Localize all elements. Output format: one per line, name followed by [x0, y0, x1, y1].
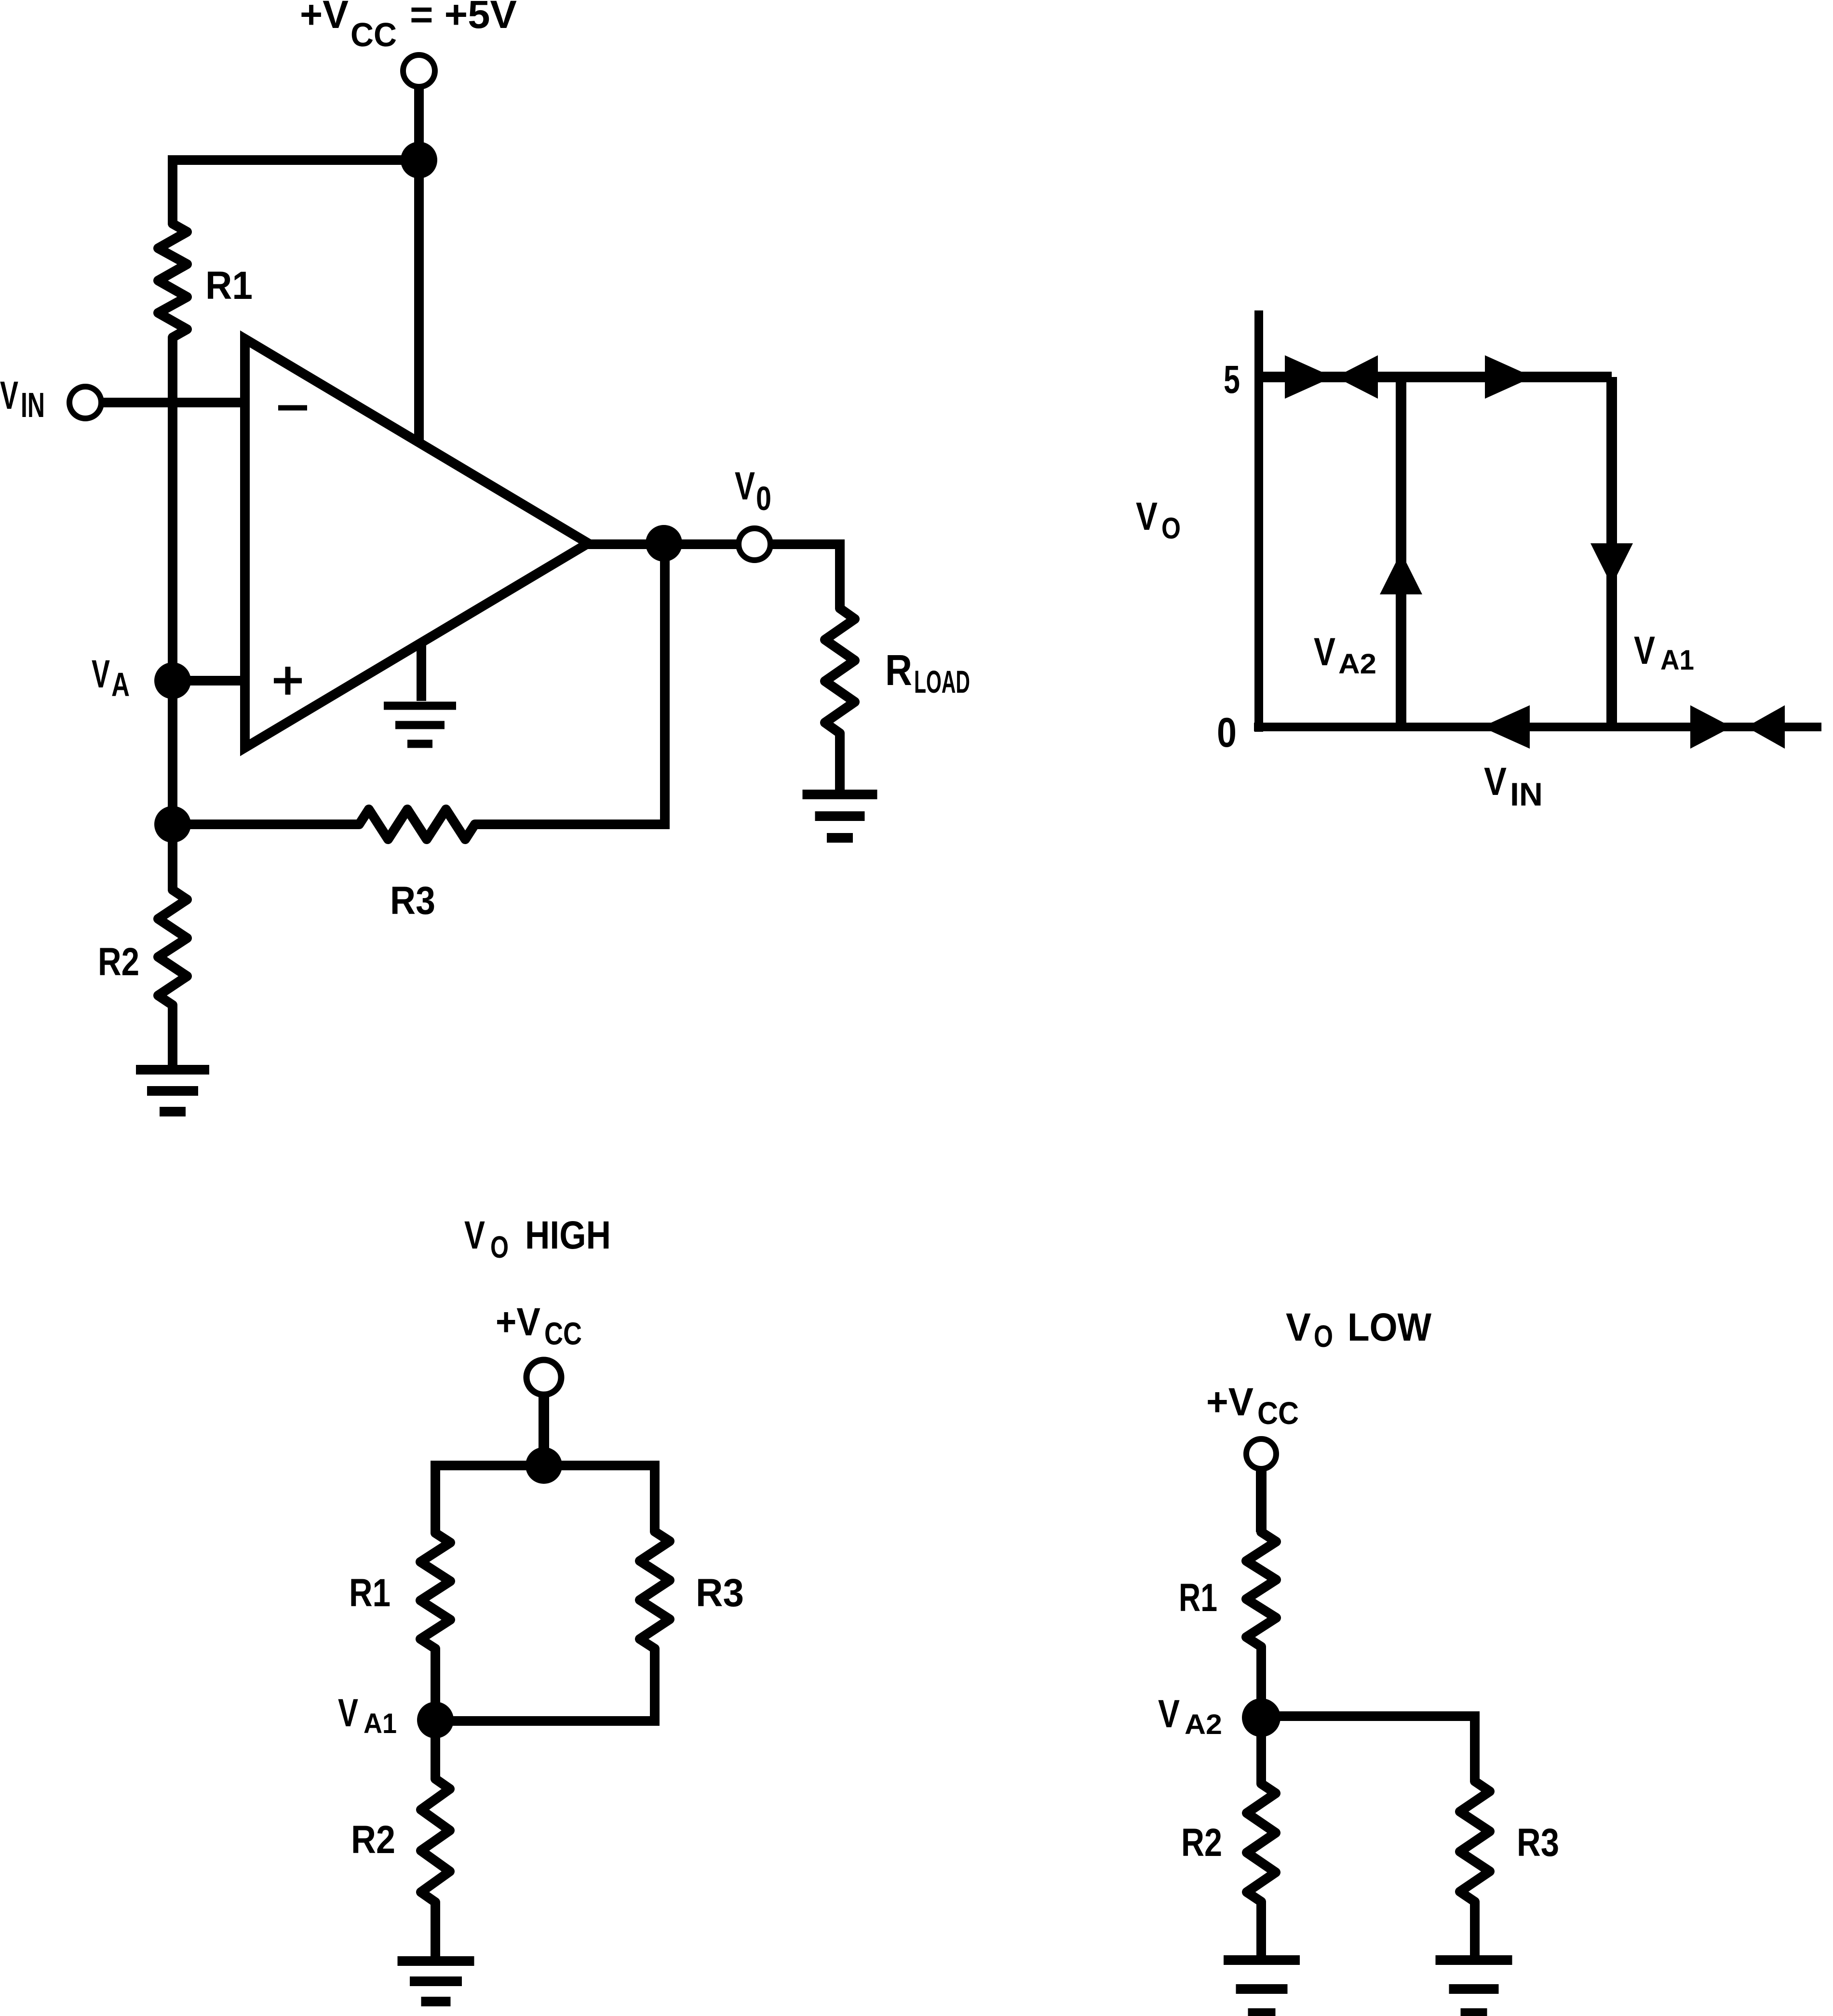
svg-text:A2: A2	[1185, 1709, 1222, 1740]
node VCC junction dot (high ckt)	[526, 1447, 562, 1484]
node feedback junction dot	[154, 806, 191, 843]
arrow right near x-axis end	[1690, 705, 1732, 749]
wire ground pin stem	[417, 641, 426, 701]
wire R1 to VA1 node	[431, 1649, 440, 1720]
svg-text:V: V	[338, 1691, 358, 1735]
svg-text:CC: CC	[544, 1316, 582, 1351]
svg-text:= +5V: = +5V	[410, 0, 517, 37]
svg-text:R2: R2	[1181, 1821, 1222, 1865]
svg-text:R3: R3	[1517, 1821, 1559, 1865]
arrow down on VA1 line	[1590, 543, 1633, 586]
resistor R1 (high ckt)	[420, 1533, 450, 1649]
ground under R2 (low ckt)	[1224, 1955, 1300, 1965]
svg-text:CC: CC	[1257, 1395, 1299, 1431]
ground (high ckt)	[398, 1956, 474, 1966]
wire VA to non-inverting input	[173, 676, 250, 685]
wire R3 to bottom rail	[650, 1649, 660, 1726]
svg-text:R: R	[885, 646, 912, 695]
resistor R3 (low ckt)	[1460, 1781, 1490, 1902]
arrow left at x-axis end	[1746, 705, 1785, 749]
op-amp U1 comparator triangle	[245, 339, 588, 748]
ground under RLOAD	[803, 790, 877, 799]
wire top rail (high ckt)	[435, 1461, 655, 1470]
graph top line VO=5	[1259, 372, 1612, 382]
resistor R3 (high ckt)	[640, 1532, 670, 1649]
svg-text:+V: +V	[1206, 1380, 1253, 1424]
svg-text:HIGH: HIGH	[525, 1213, 611, 1257]
wire VA down to feedback node	[168, 681, 177, 824]
svg-text:+V: +V	[300, 0, 349, 37]
wire VA2 to R2 (low ckt)	[1256, 1718, 1266, 1784]
wire VA1 to R2 (high ckt)	[431, 1720, 440, 1779]
power terminal +VCC (low ckt)	[1246, 1439, 1276, 1469]
wire R1 bottom to node VA	[168, 337, 177, 681]
graph x-axis VIN	[1254, 723, 1821, 731]
node VA2 dot (low ckt)	[1242, 1698, 1280, 1737]
svg-text:O: O	[1314, 1319, 1333, 1354]
resistor R1 (low ckt)	[1246, 1532, 1276, 1647]
svg-text:R1: R1	[1179, 1576, 1217, 1620]
resistor R3	[359, 809, 475, 839]
wire R3 to node	[173, 820, 359, 829]
wire node to R2	[168, 824, 177, 890]
ground under op-amp	[384, 702, 456, 710]
power terminal +VCC	[403, 55, 435, 87]
input terminal VIN	[69, 387, 101, 418]
svg-text:R3: R3	[390, 879, 435, 923]
svg-text:IN: IN	[21, 386, 45, 425]
resistor R2	[158, 890, 187, 1005]
svg-text:V: V	[1158, 1692, 1180, 1736]
wire R2 to ground	[168, 1005, 177, 1070]
pin plus (non-inverting input)	[274, 678, 302, 684]
svg-text:O: O	[490, 1230, 509, 1264]
wire RLOAD to ground	[835, 733, 845, 794]
svg-text:O: O	[1161, 512, 1181, 545]
wire VCC terminal to junction	[414, 85, 424, 160]
node output junction dot	[646, 525, 682, 562]
svg-text:A1: A1	[1660, 645, 1694, 676]
wire terminal to R1 (low ckt)	[1256, 1469, 1267, 1532]
wire feedback vertical	[660, 543, 670, 824]
svg-text:CC: CC	[350, 16, 397, 54]
wire V0 to RLOAD corner	[768, 539, 840, 549]
svg-text:V: V	[464, 1213, 485, 1257]
svg-text:V: V	[1314, 630, 1335, 674]
wire power rail into op-amp	[414, 160, 424, 446]
wire R1 to VA2 node (low ckt)	[1256, 1647, 1266, 1718]
wire op-amp output	[586, 539, 741, 549]
svg-text:V: V	[735, 464, 755, 508]
graph line VA2 vertical	[1396, 377, 1406, 727]
arrow left on x-axis	[1482, 705, 1530, 749]
svg-text:+V: +V	[496, 1300, 540, 1344]
svg-text:0: 0	[756, 480, 771, 517]
svg-text:V: V	[1634, 629, 1655, 672]
svg-text:V: V	[1484, 760, 1507, 804]
ground under R3 (low ckt)	[1436, 1955, 1512, 1965]
svg-text:A: A	[111, 666, 130, 703]
arrow up on VA2 line	[1380, 552, 1422, 594]
svg-text:V: V	[1286, 1305, 1311, 1349]
arrow right toward VA1	[1485, 355, 1533, 399]
node VCC junction dot	[401, 142, 437, 178]
arrow left on top line	[1335, 355, 1378, 399]
svg-text:R1: R1	[205, 264, 253, 308]
graph y-axis VO	[1254, 310, 1263, 732]
svg-text:R1: R1	[349, 1571, 391, 1615]
svg-text:0: 0	[1217, 710, 1237, 756]
svg-text:V: V	[0, 374, 18, 417]
wire R2 to ground (low ckt)	[1256, 1902, 1266, 1960]
output terminal V0	[739, 528, 770, 560]
wire VA2 to R3 branch (low ckt)	[1261, 1711, 1475, 1721]
graph line VA1 vertical	[1606, 377, 1617, 727]
svg-text:V: V	[1136, 495, 1158, 538]
ground under R2	[136, 1065, 209, 1075]
svg-text:A1: A1	[364, 1708, 397, 1739]
wire R2 to ground (high ckt)	[431, 1902, 440, 1961]
svg-text:A2: A2	[1338, 648, 1376, 680]
svg-text:R2: R2	[98, 940, 139, 984]
pin minus (inverting input)	[278, 405, 307, 411]
wire R3 to ground (low ckt)	[1470, 1902, 1480, 1960]
svg-text:R2: R2	[351, 1818, 395, 1862]
wire feedback to R3	[475, 820, 670, 829]
resistor RLOAD	[825, 608, 855, 733]
resistor R2 (high ckt)	[421, 1779, 450, 1902]
svg-text:LOAD: LOAD	[914, 664, 970, 699]
svg-text:5: 5	[1224, 358, 1240, 402]
wire terminal to junction (high ckt)	[539, 1393, 549, 1465]
svg-text:V: V	[92, 652, 110, 696]
resistor R1	[158, 224, 187, 337]
svg-text:R3: R3	[696, 1571, 744, 1615]
wire VIN to inverting input	[100, 398, 250, 407]
arrow right on top line	[1285, 355, 1333, 399]
svg-text:LOW: LOW	[1348, 1305, 1432, 1349]
resistor R2 (low ckt)	[1247, 1784, 1276, 1902]
node VA1 dot (high ckt)	[417, 1702, 454, 1738]
wire VCC junction to R1 top	[168, 155, 419, 165]
node VA dot	[154, 662, 191, 699]
svg-text:IN: IN	[1510, 776, 1543, 813]
power terminal +VCC (high ckt)	[526, 1360, 561, 1395]
